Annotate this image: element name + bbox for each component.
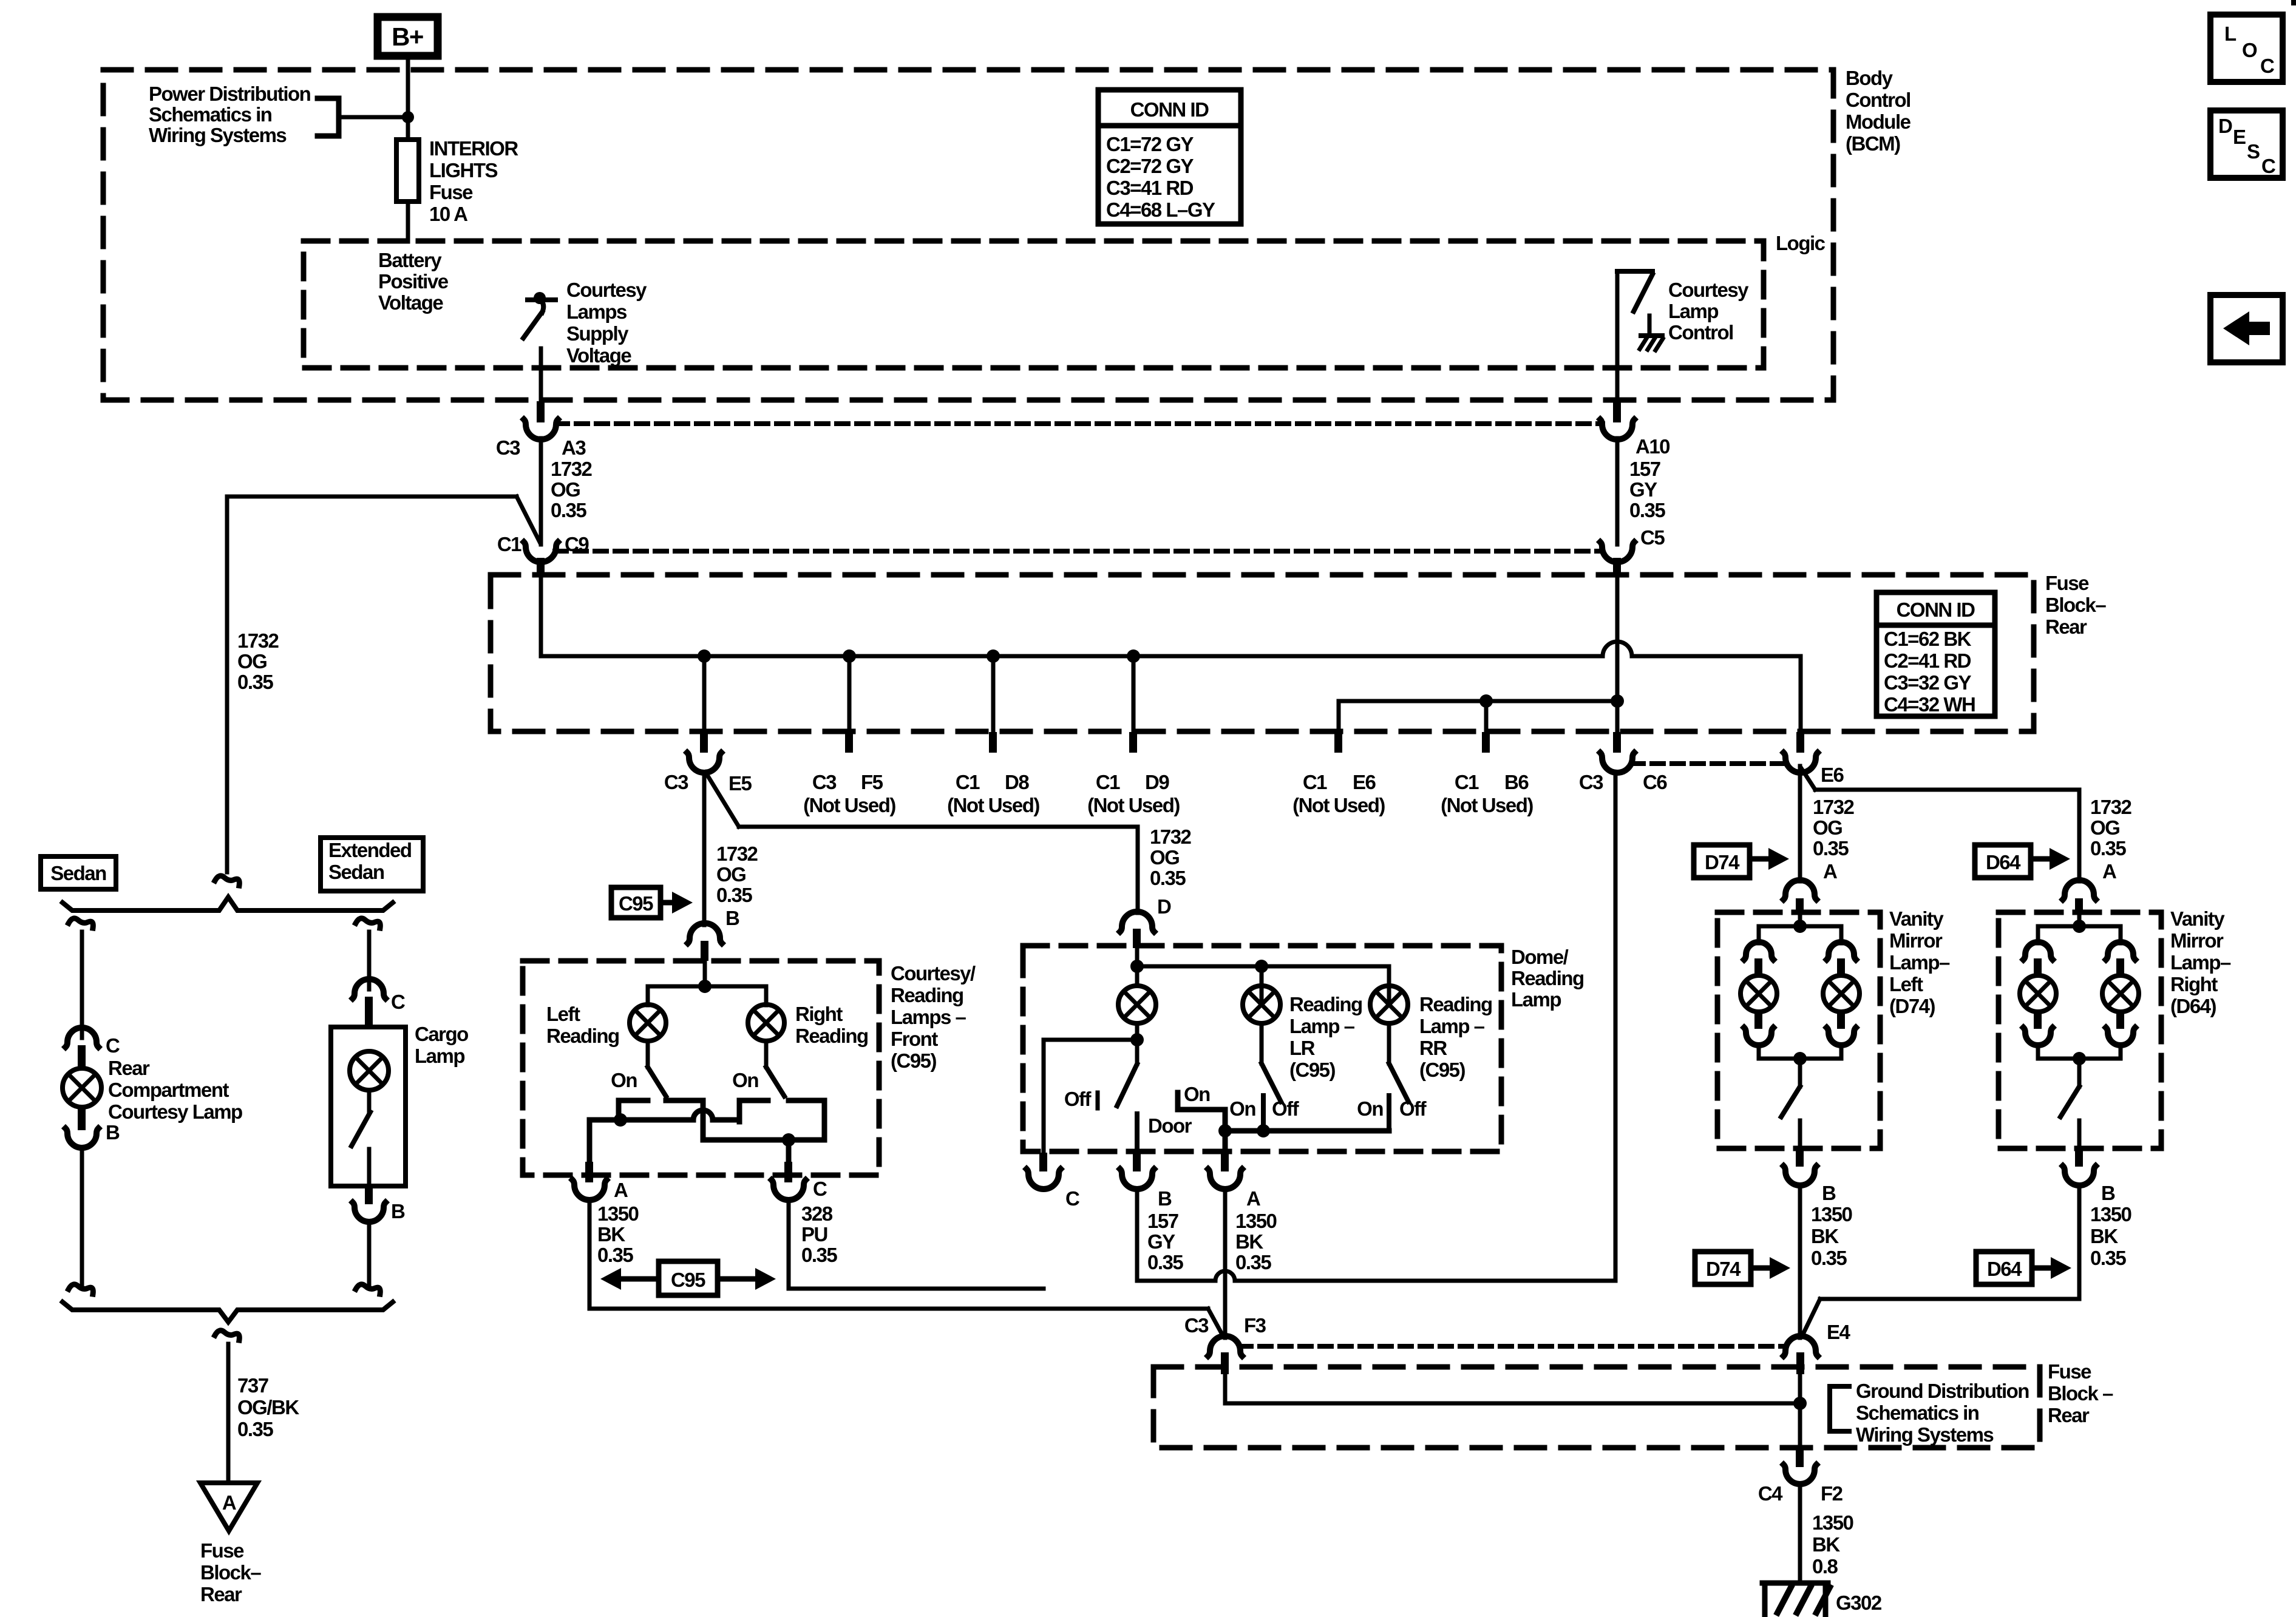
connector pin C cargo lamp [353,979,385,1027]
junction dot vanity right top [2073,920,2086,933]
connector pin C front lamps [772,1162,806,1200]
wire dome A rail [1225,1128,1389,1134]
svg-text:0.35: 0.35 [2090,837,2126,859]
stub C1 pin D8 not used [989,656,997,753]
brace split sedan/extended [63,897,393,910]
svg-text:Voltage: Voltage [378,291,443,314]
svg-text:1732: 1732 [1813,796,1855,818]
svg-text:Ground Distribution: Ground Distribution [1856,1380,2029,1402]
svg-text:0.35: 0.35 [237,1418,273,1440]
svg-text:1350: 1350 [1812,1511,1853,1534]
label wire 1732 OG 0.35 (A3) [551,458,593,521]
svg-text:D64: D64 [1987,1258,2022,1280]
connector pin B dome [1120,1153,1154,1189]
svg-text:B6: B6 [1504,771,1529,793]
svg-text:Cargo: Cargo [415,1023,468,1045]
wire E6 diagonal to vanity right [1801,767,2079,881]
label on right [732,1069,758,1091]
svg-text:PU: PU [801,1223,827,1246]
wire fuse to BCM logic [406,202,410,242]
svg-text:0.35: 0.35 [801,1244,837,1266]
svg-text:B: B [391,1200,405,1222]
svg-text:Left: Left [546,1003,580,1025]
ground G302 [1762,1583,1830,1616]
stub C3 pin F5 not used [845,656,853,753]
label rear compartment courtesy lamp [108,1057,242,1123]
fuse F_INT INTERIOR LIGHTS 10A [396,140,419,202]
label C3 F3 [1184,1314,1266,1337]
label wire 1350 BK 0.35 (front A) [597,1202,639,1266]
svg-text:Off: Off [1272,1097,1300,1120]
table CONN ID (BCM) [1098,90,1241,224]
svg-text:0.35: 0.35 [237,671,273,693]
svg-text:B+: B+ [392,22,423,51]
svg-text:0.35: 0.35 [597,1244,633,1266]
svg-text:Lamp: Lamp [1668,300,1718,322]
stub C1 pin D9 not used [1129,656,1137,753]
wire front interlock [589,1100,824,1140]
svg-text:GY: GY [1147,1230,1175,1253]
svg-text:C6: C6 [1643,771,1667,793]
label pin B rear lamp [106,1121,120,1144]
svg-text:CONN ID: CONN ID [1130,98,1209,121]
svg-text:C3: C3 [664,771,688,793]
wire vanity right top rail [2038,926,2121,943]
label C3 C6 [1579,771,1668,793]
svg-text:A: A [2102,860,2116,883]
svg-text:C: C [2261,155,2275,177]
label wire 1350 BK 0.35 (vanity left B) [1811,1203,1852,1269]
svg-text:Sedan: Sedan [50,862,106,884]
svg-text:C4=68 L–GY: C4=68 L–GY [1106,198,1215,221]
svg-text:Courtesy: Courtesy [566,279,647,301]
svg-text:Reading: Reading [1289,993,1362,1015]
svg-text:E6: E6 [1353,771,1376,793]
connector pin E6 [1784,732,1818,773]
connector pin C rear lamp [66,1028,98,1068]
box vanity mirror lamp left dashed [1717,912,1880,1148]
svg-text:Reading: Reading [1419,993,1492,1015]
junction dot bus D9 [1127,649,1140,663]
connector pin A front lamps [572,1162,606,1200]
lamp reading RR [1370,986,1408,1023]
junction dot stub B6 [1479,694,1493,708]
junction dot vanity right bottom [2073,1052,2086,1065]
svg-text:A: A [1246,1187,1260,1210]
svg-text:Dome/: Dome/ [1511,946,1569,968]
junction dot bus F5 [843,649,856,663]
svg-text:B: B [1822,1182,1836,1204]
label C3 F5 not used [803,771,895,816]
svg-text:LR: LR [1289,1037,1316,1059]
svg-text:F3: F3 [1244,1314,1266,1337]
switch reading LR [1262,1023,1281,1131]
wire not-used stub line [1339,701,1617,732]
label pin D dome lamp [1157,895,1171,918]
wire A3 to C9 [539,438,543,544]
lamp vanity right 2 [2102,975,2139,1012]
artifact corner mark [2291,0,2296,5]
svg-text:C2=72 GY: C2=72 GY [1106,155,1194,177]
harness dotted F3-E4 [1240,1344,1786,1349]
wire vanity right feed [2077,914,2082,926]
svg-text:Off: Off [1399,1097,1427,1120]
wire dome lamp out [1135,1023,1140,1040]
svg-text:Vanity: Vanity [1889,907,1944,930]
label body control module [1846,67,1911,155]
label wire break squiggle top [215,876,239,886]
svg-text:OG/BK: OG/BK [237,1396,299,1419]
ref box C95 with arrow [611,887,693,918]
junction dot front feed [698,980,712,993]
svg-text:C3: C3 [1184,1314,1209,1337]
svg-text:Module: Module [1846,110,1911,133]
svg-text:1732: 1732 [1150,825,1192,848]
label E6 [1821,764,1844,786]
svg-text:Lamp–: Lamp– [2170,951,2231,974]
label courtesy reading lamps front [891,962,976,1072]
svg-text:O: O [2242,39,2257,61]
label pin C front [813,1178,827,1200]
svg-text:B: B [725,907,739,929]
svg-text:157: 157 [1147,1210,1178,1232]
transistor driver courtesy lamp control [1617,271,1663,402]
label left reading [546,1003,619,1047]
switch vanity right [2060,1059,2079,1147]
junction dot vanity left bottom [1793,1052,1807,1065]
switch cargo lamp [352,1090,370,1186]
connector lamp2 top vanity right [2106,942,2135,975]
connector lamp2 bottom vanity right [2106,1012,2135,1045]
svg-text:1350: 1350 [2090,1203,2131,1225]
label pin C cargo lamp [391,991,405,1013]
lamp right reading [748,1005,784,1041]
table CONN ID (fuse block) [1877,592,1995,716]
lamp reading LR [1243,986,1280,1023]
label pin B dome [1158,1187,1172,1210]
junction dot bus D8 [987,649,1000,663]
svg-text:0.35: 0.35 [716,884,752,906]
wire dome out to C [1044,1040,1137,1153]
svg-text:(Not Used): (Not Used) [1292,794,1385,816]
squiggle merge left [69,1284,93,1294]
junction dot interlock A [614,1113,627,1127]
squiggle below merge [215,1331,239,1340]
svg-text:D74: D74 [1705,851,1740,873]
label wire 157 GY 0.35 (dome B) [1147,1210,1183,1273]
svg-text:L: L [2224,22,2237,45]
option box Sedan [41,856,116,889]
svg-text:Reading: Reading [795,1025,868,1047]
junction dot A rail 2 [1257,1124,1270,1137]
label interior lights fuse [429,137,518,225]
connector lamp2 bottom vanity left [1827,1012,1856,1045]
label logic [1776,232,1826,254]
svg-text:E4: E4 [1827,1321,1851,1343]
label C1 C9 [497,533,589,555]
svg-text:OG: OG [1150,846,1179,869]
connector pin B front lamps [688,923,722,961]
connector C3 pin A3 (BCM out) [524,401,558,439]
label C5 [1640,526,1665,549]
svg-text:OG: OG [237,650,267,673]
junction dot stub C6 [1611,694,1624,708]
switch dome off/on/door [1117,1040,1137,1106]
wire to pin A front [587,1120,593,1162]
svg-text:CONN ID: CONN ID [1897,598,1975,621]
svg-text:On: On [1357,1097,1383,1120]
svg-text:Wiring Systems: Wiring Systems [149,124,286,146]
svg-text:Rear: Rear [108,1057,150,1079]
label wire 1732 OG 0.35 (vanity left) [1813,796,1855,859]
label on/off RR [1357,1097,1427,1120]
option box Extended Sedan [321,838,423,891]
svg-text:C3: C3 [496,436,520,459]
label pin A dome [1246,1187,1260,1210]
svg-text:Body: Body [1846,67,1894,89]
svg-text:1732: 1732 [551,458,593,480]
svg-text:0.35: 0.35 [1813,837,1849,859]
wire tap to bracket [339,115,408,120]
squiggle sedan branch [69,918,93,928]
svg-text:A10: A10 [1635,435,1669,458]
svg-text:Positive: Positive [378,270,449,293]
harness dotted C6-E6 [1632,761,1785,766]
svg-text:1350: 1350 [1811,1203,1852,1225]
svg-text:0.8: 0.8 [1812,1555,1838,1578]
svg-text:0.35: 0.35 [1147,1251,1183,1273]
component box cargo lamp [331,1027,406,1186]
svg-text:0.35: 0.35 [1235,1251,1271,1273]
svg-text:C1: C1 [1303,771,1327,793]
label C1 D9 not used [1087,771,1180,816]
svg-text:C: C [106,1034,120,1057]
label fuse block rear (top right) [2045,572,2106,638]
harness dotted band bottom [555,549,1603,554]
label pin C dome [1065,1187,1079,1210]
wire vanity left top rail [1759,926,1841,943]
label pin A front [614,1179,628,1201]
svg-text:(Not Used): (Not Used) [1441,794,1533,816]
wire cargo lamp to merge [367,1221,372,1284]
label wire 1350 BK 0.8 [1812,1511,1853,1578]
svg-text:D64: D64 [1986,851,2021,873]
wire F3 inside ground box [1225,1374,1800,1403]
label pin B vanity left [1822,1182,1836,1204]
label pin A vanity left [1823,860,1837,883]
label C1 B6 not used [1441,771,1533,816]
junction dot dome out [1130,1033,1144,1046]
battery positive voltage node B+ [378,17,438,56]
box ground distribution fuse block dashed [1153,1367,2040,1448]
svg-text:(Not Used): (Not Used) [1087,794,1180,816]
label wire 1350 BK 0.35 (dome A) [1235,1210,1277,1273]
svg-text:Schematics in: Schematics in [1856,1402,1979,1424]
connector C3 pin C6 [1600,732,1634,773]
icon box back-arrow [2210,295,2283,362]
lamp vanity left 2 [1823,975,1860,1012]
icon box LOC [2210,15,2283,82]
wire vanity left feed [1798,914,1802,926]
svg-text:Courtesy: Courtesy [1668,279,1749,301]
svg-text:Vanity: Vanity [2170,907,2225,930]
svg-text:C5: C5 [1640,526,1665,549]
svg-text:Mirror: Mirror [2170,929,2224,952]
svg-text:Lamp: Lamp [1511,988,1561,1011]
switch left reading [648,1041,666,1096]
svg-text:0.35: 0.35 [1629,499,1665,521]
svg-text:Right: Right [795,1003,843,1025]
label fuse block rear (ground) [2048,1360,2113,1426]
lamp E_CL cargo lamp [350,1051,389,1090]
box fuse block rear dashed [491,575,2034,731]
svg-text:OG: OG [1813,816,1842,839]
svg-text:(D74): (D74) [1889,995,1935,1017]
svg-text:C: C [813,1178,827,1200]
wire A10 to C5 [1615,438,1620,544]
svg-text:Fuse: Fuse [429,181,473,203]
svg-text:BK: BK [2090,1225,2118,1247]
switch S1 courtesy lamps supply voltage [523,292,555,338]
wire to pin C front [786,1140,792,1162]
switch right reading [766,1041,784,1096]
svg-text:BK: BK [1235,1230,1263,1253]
svg-text:Reading: Reading [546,1025,619,1047]
svg-text:S: S [2247,140,2260,163]
connector C3 pin E5 [687,656,721,773]
svg-text:C9: C9 [565,533,589,555]
svg-text:C: C [1065,1187,1079,1210]
connector lamp1 bottom vanity left [1744,1012,1773,1045]
label reading lamp LR [1289,993,1362,1081]
wire bus fuse block [541,577,1801,732]
svg-text:Battery: Battery [378,249,442,271]
label pin B front lamps [725,907,739,929]
wire supply switch to A3 [539,348,543,402]
wire dome B to C6 net [1137,772,1615,1281]
svg-text:0.35: 0.35 [2090,1247,2126,1269]
svg-text:(C95): (C95) [891,1049,937,1072]
label vanity mirror lamp right [2170,907,2231,1017]
svg-text:C95: C95 [671,1269,705,1291]
wire door contact [1135,1114,1140,1153]
svg-text:On: On [732,1069,758,1091]
box courtesy/reading lamps front dashed [523,961,879,1175]
svg-text:A: A [222,1491,236,1514]
label power distribution schematics [149,83,311,146]
ref box D74 top with arrow [1694,845,1789,878]
svg-text:Schematics in: Schematics in [149,103,272,126]
box logic dashed outline [304,241,1764,368]
svg-text:Control: Control [1668,321,1733,344]
svg-text:Reading: Reading [1511,967,1584,989]
wire D into dome box [1135,948,1140,966]
svg-text:10 A: 10 A [429,203,467,225]
svg-text:Compartment: Compartment [108,1079,229,1101]
wire B+ to fuse [406,59,410,140]
lamp left reading [630,1005,666,1041]
svg-text:Block–: Block– [2045,594,2106,616]
svg-text:D74: D74 [1706,1258,1741,1280]
wire sedan branch [80,932,84,1038]
svg-text:Reading: Reading [891,984,963,1006]
svg-text:Door: Door [1148,1114,1192,1137]
label E4 [1827,1321,1851,1343]
svg-text:C3=41 RD: C3=41 RD [1106,177,1194,199]
svg-text:D8: D8 [1005,771,1029,793]
svg-text:C3=32 GY: C3=32 GY [1884,671,1971,694]
junction dot ground node [1793,1397,1807,1410]
svg-text:A: A [614,1179,628,1201]
label wire 737 OG/BK 0.35 [237,1374,299,1440]
label pin B vanity right [2101,1182,2115,1204]
wire front A to F3 [589,1199,1223,1335]
wire vanity right bottom rail [2038,1045,2121,1059]
connector C4 pin F2 [1784,1449,1816,1484]
wire dome feed rail [1137,966,1389,1005]
label off tick [1096,1093,1100,1108]
label wire 1350 BK 0.35 (vanity right B) [2090,1203,2131,1269]
svg-text:C4=32 WH: C4=32 WH [1884,693,1975,716]
label pin B cargo lamp [391,1200,405,1222]
icon box DESC [2210,110,2283,178]
lamp E_RC rear compartment courtesy lamp [63,1068,101,1107]
off-page triangle A to fuse block rear [200,1483,257,1531]
svg-text:Control: Control [1846,89,1911,111]
connector pin B cargo lamp [353,1186,385,1222]
svg-text:Front: Front [891,1028,938,1050]
label ground distribution schematics [1856,1380,2029,1446]
label courtesy lamp control [1668,279,1749,344]
svg-text:Courtesy/: Courtesy/ [891,962,976,985]
svg-text:BK: BK [597,1223,625,1246]
connector pin A vanity right [2063,880,2096,914]
connector pin A dome [1208,1153,1242,1189]
svg-text:G302: G302 [1836,1592,1882,1614]
svg-text:C1=62 BK: C1=62 BK [1884,628,1972,650]
wire B into front box [703,961,707,986]
svg-text:Courtesy Lamp: Courtesy Lamp [108,1100,242,1123]
connector C3 pin A10 (BCM out) [1600,401,1634,439]
svg-text:Rear: Rear [200,1583,242,1605]
wire rear lamp to merge [80,1147,84,1284]
svg-text:C1=72 GY: C1=72 GY [1106,133,1194,155]
svg-text:D: D [2218,115,2232,137]
label C1 D8 not used [947,771,1039,816]
label wire 1732 OG 0.35 (vanity right) [2090,796,2132,859]
brace merge bottom [63,1302,393,1322]
svg-text:328: 328 [801,1202,833,1225]
svg-text:Power Distribution: Power Distribution [149,83,311,105]
svg-text:1732: 1732 [716,842,758,865]
label vanity mirror lamp left [1889,907,1950,1017]
svg-text:LIGHTS: LIGHTS [429,159,497,181]
svg-text:BK: BK [1812,1533,1840,1556]
svg-text:BK: BK [1811,1225,1839,1247]
label fuse block rear (bottom left) [200,1539,261,1605]
connector pin E4 [1784,1336,1818,1374]
svg-text:Lamps: Lamps [566,300,627,323]
label wire 157 GY 0.35 (A10) [1629,458,1665,521]
svg-text:Fuse: Fuse [2045,572,2089,594]
label off [1064,1088,1092,1110]
svg-text:F2: F2 [1821,1482,1843,1505]
svg-text:Rear: Rear [2048,1404,2090,1426]
label G302 [1836,1592,1882,1614]
wire E5 to B [702,772,707,925]
label door [1148,1114,1192,1137]
svg-text:Lamp –: Lamp – [1419,1015,1485,1037]
